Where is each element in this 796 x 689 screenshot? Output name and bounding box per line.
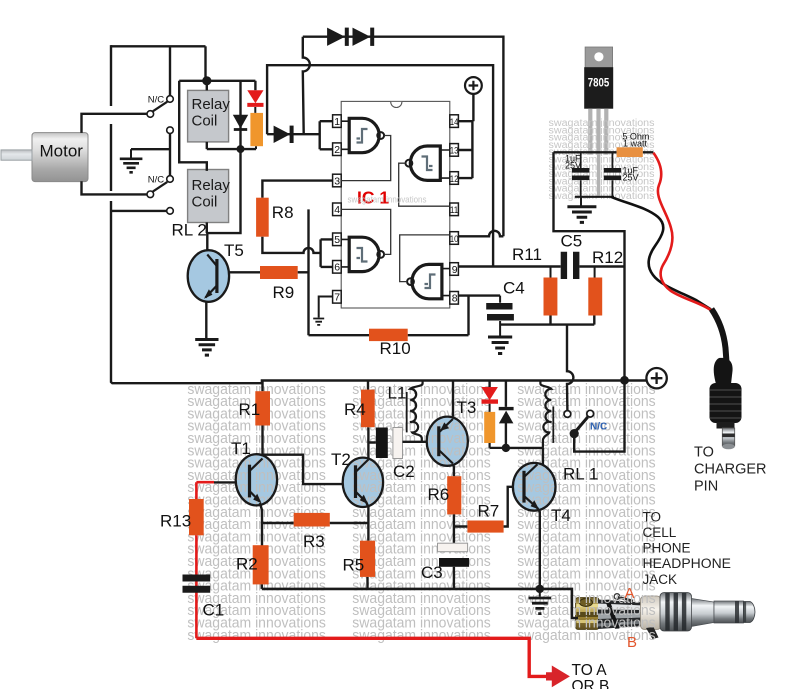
svg-text:R7: R7 bbox=[478, 502, 500, 521]
resistor R8 bbox=[256, 198, 269, 237]
svg-text:R11: R11 bbox=[512, 245, 542, 264]
ground (7805 caps) bbox=[580, 197, 582, 206]
wire S2 bottom contact lead bbox=[111, 210, 166, 212]
svg-text:3: 3 bbox=[334, 175, 340, 187]
diode D5 (freewheel, pointing up) bbox=[505, 381, 507, 448]
IC1 gate A (pins 1,2 -> 3) bbox=[349, 118, 384, 152]
headphone jack photo: chrome ribbed collar bbox=[660, 593, 692, 632]
RL1 pivot dot bbox=[570, 429, 579, 438]
wire R10 left to riser bbox=[309, 334, 370, 336]
svg-text:1: 1 bbox=[334, 116, 340, 128]
svg-text:RL 2: RL 2 bbox=[172, 221, 207, 240]
svg-text:swagatam innovationsswagatam i: swagatam innovationsswagatam innovations… bbox=[187, 627, 655, 644]
svg-text:T4: T4 bbox=[551, 506, 571, 525]
svg-text:R2: R2 bbox=[236, 555, 258, 574]
wire LED2 branch stem bbox=[488, 381, 490, 388]
transistor T2 bbox=[343, 458, 383, 507]
diode D2 (top series) bbox=[353, 28, 371, 46]
resistor R11 bbox=[550, 267, 552, 278]
svg-text:N/C: N/C bbox=[590, 422, 607, 433]
resistor R6 bbox=[447, 476, 461, 514]
wire pin3 to R8 bbox=[262, 181, 332, 198]
wire R7 to T4 base bbox=[504, 487, 513, 527]
ground (rail) bbox=[539, 589, 541, 597]
ground (pin7, small) bbox=[313, 319, 324, 325]
wire coil2 bottom to T5 collector bbox=[207, 149, 241, 250]
wire T2 emitter through R5 to rail bbox=[366, 502, 368, 589]
resistor R9 bbox=[260, 266, 298, 279]
svg-text:JACK: JACK bbox=[643, 572, 678, 587]
watermark block (near 7805) bbox=[549, 118, 655, 202]
wire pin8 to C4 bbox=[458, 294, 500, 296]
wire relay top drop bbox=[204, 46, 206, 81]
resistor R13 bbox=[189, 499, 204, 535]
wire left loop to coil2 top bbox=[179, 81, 207, 171]
svg-text:7: 7 bbox=[334, 292, 340, 304]
IC1 gate B input nubs bbox=[440, 150, 450, 178]
diode D3 (across relay, pointing down) bbox=[233, 115, 248, 129]
transistor T2 circle fill bbox=[343, 458, 383, 507]
svg-text:T5: T5 bbox=[224, 241, 244, 260]
IC1 pin 10 bbox=[450, 232, 459, 245]
wire T1 collector cross-couple to T2 base bbox=[263, 455, 343, 484]
wire relay coil1 stems bbox=[206, 81, 208, 149]
headphone jack photo: tip barrel bbox=[714, 601, 755, 623]
motor M1 body bbox=[32, 133, 88, 182]
node dot LED/diode bbox=[502, 444, 510, 452]
S2 bottom contact bbox=[167, 208, 174, 215]
wire top feedback (pin10 loop) with hop over y=65 wire bbox=[303, 37, 504, 237]
svg-text:PIN: PIN bbox=[694, 479, 718, 495]
capacitor C4 bbox=[499, 296, 501, 336]
svg-text:5: 5 bbox=[334, 234, 340, 246]
svg-text:Relay: Relay bbox=[192, 177, 231, 194]
resistor R3 bbox=[294, 513, 330, 527]
plus terminal (IC supply) bbox=[465, 77, 482, 94]
svg-text:11: 11 bbox=[450, 205, 458, 215]
wire R3 right to T2 emitter bbox=[330, 522, 369, 524]
wire node to T4 collector bbox=[506, 448, 543, 465]
switch S1 N/C contact bbox=[167, 96, 174, 103]
capacitor C5 bbox=[564, 252, 576, 279]
IC1 pin 7 bbox=[333, 291, 342, 304]
svg-text:N/C: N/C bbox=[148, 175, 165, 186]
svg-text:OR B: OR B bbox=[572, 678, 610, 689]
IC1 pin 2 bbox=[333, 143, 342, 156]
wire 7805 output row bbox=[554, 151, 654, 153]
wire T5 emitter to ground bbox=[205, 302, 207, 339]
wire ground tap bbox=[131, 148, 170, 150]
svg-text:7805: 7805 bbox=[588, 78, 610, 90]
IC1 gate D output trace to pin10 bbox=[400, 235, 450, 282]
svg-text:1 watt: 1 watt bbox=[623, 138, 648, 148]
wire C2 plates stems bbox=[368, 441, 426, 444]
resistor R1 bbox=[261, 381, 263, 455]
wire coil1 bottom to LED node bbox=[207, 148, 256, 150]
IC1 gate B (pins 12,13 -> 11, mirrored) bbox=[406, 146, 441, 180]
red wire through R13 and C1 down to red rail bbox=[195, 482, 198, 638]
charger red lead (wavy) bbox=[653, 153, 712, 311]
7805 body bbox=[584, 67, 613, 109]
LED1 red (pointing down) bbox=[247, 90, 263, 103]
relay RL1 contact riser (hop over bus) bbox=[567, 325, 573, 411]
charger plug neck bbox=[717, 422, 735, 429]
svg-text:R10: R10 bbox=[380, 339, 411, 358]
wire 7805 input frame bbox=[554, 152, 625, 380]
wire pin7 to ground bbox=[319, 297, 333, 318]
svg-text:TO: TO bbox=[694, 445, 714, 461]
IC1 gate B output trace to pin11 bbox=[399, 163, 450, 206]
IC1 gate C input nubs bbox=[341, 239, 349, 267]
wire R6 bottom / R7 node / C3 bbox=[454, 514, 468, 543]
7805 tab bbox=[585, 47, 613, 69]
node dot rail/T4 emitter bbox=[536, 585, 544, 593]
diode D1 (top series) bbox=[327, 28, 345, 46]
svg-text:6: 6 bbox=[334, 262, 340, 274]
svg-text:PHONE: PHONE bbox=[643, 541, 691, 556]
svg-text:R8: R8 bbox=[272, 203, 294, 222]
headphone jack photo: gold lug bbox=[576, 598, 600, 630]
svg-text:T3: T3 bbox=[457, 398, 477, 417]
motor M1 shaft bbox=[1, 150, 32, 160]
wire pin8 drop to R10 bbox=[408, 296, 469, 336]
svg-text:TO: TO bbox=[643, 510, 662, 525]
IC1 pin 8 bbox=[450, 292, 459, 305]
transistor T4 circle fill bbox=[513, 463, 556, 511]
RL1 contact right (N/C) bbox=[587, 410, 594, 417]
svg-text:R13: R13 bbox=[160, 512, 191, 531]
wire pin9 feedback branch (y=65) bbox=[267, 65, 493, 266]
IC1 pin 4 bbox=[333, 203, 342, 216]
svg-text:Coil: Coil bbox=[192, 113, 218, 130]
wire RL1 common to bus bbox=[574, 381, 624, 452]
charger black lead (wavy) bbox=[611, 197, 711, 310]
transistor T3 circle fill bbox=[427, 417, 468, 466]
charger plug metal tip bbox=[722, 428, 734, 446]
IC1 pin 12 bbox=[450, 172, 459, 185]
red arrow TO A OR B bbox=[546, 666, 570, 688]
svg-text:C5: C5 bbox=[561, 232, 583, 251]
IC1 gate A output trace to pin3 bbox=[341, 136, 390, 181]
IC1 gate A input nubs bbox=[341, 121, 349, 149]
switch S2 pivot contact bbox=[147, 191, 154, 198]
7805 legs bbox=[588, 109, 592, 155]
svg-text:Motor: Motor bbox=[40, 142, 84, 161]
red wire T1 base tap bbox=[196, 481, 214, 484]
svg-text:N/C: N/C bbox=[148, 95, 165, 106]
wire motor top lead bbox=[82, 114, 148, 133]
svg-text:4: 4 bbox=[334, 204, 340, 216]
svg-text:Relay: Relay bbox=[192, 96, 231, 113]
headphone jack photo: taper bbox=[692, 599, 715, 627]
switch S1 lever bbox=[153, 102, 168, 112]
switch S2 N/C contact bbox=[167, 176, 174, 183]
transistor T4 bbox=[513, 463, 556, 511]
resistor R4 bbox=[367, 381, 370, 459]
RL1 lever bbox=[575, 417, 588, 433]
svg-text:25V: 25V bbox=[565, 161, 581, 171]
inductor L1 bbox=[410, 381, 423, 442]
IC1 gate D input nubs bbox=[442, 269, 450, 296]
wire caps common node bbox=[575, 196, 614, 198]
IC1 gate D (pins 8,9 -> 10, mirrored) bbox=[407, 264, 442, 298]
wire pin9 / C5 rail bbox=[458, 265, 624, 267]
IC1 pin 11 bbox=[450, 203, 459, 216]
wire main V+ bus bbox=[262, 381, 646, 384]
capacitor C1 bbox=[183, 578, 211, 589]
IC1 body outline bbox=[341, 101, 450, 308]
node dot coil1 bottom bbox=[237, 145, 245, 153]
wire top-left horizontal V+ bbox=[111, 45, 206, 47]
wire bottom ground rail bbox=[262, 589, 578, 618]
svg-text:R12: R12 bbox=[592, 248, 623, 267]
wire S1 lower contact tie to S2 NC bbox=[169, 134, 171, 176]
svg-text:9: 9 bbox=[452, 264, 458, 276]
RL1 contact left bbox=[564, 411, 571, 418]
headphone jack photo: solder tab shaft bbox=[598, 594, 644, 629]
resistor R5 bbox=[360, 541, 375, 577]
transistor T1 circle fill bbox=[236, 454, 277, 505]
svg-text:CELL: CELL bbox=[643, 525, 677, 540]
svg-text:R5: R5 bbox=[343, 556, 365, 575]
wire pin10 output (hop over feedback riser) bbox=[458, 231, 503, 236]
svg-text:12: 12 bbox=[450, 174, 458, 184]
relay coil box 1 of RL2 bbox=[188, 90, 229, 141]
wire motor bottom lead bbox=[82, 181, 148, 194]
wire R2 to rail bbox=[261, 584, 263, 589]
node dot relay top bbox=[202, 76, 211, 85]
svg-text:T1: T1 bbox=[231, 439, 251, 458]
wire diode D4 row into pins 1,2 bbox=[267, 121, 333, 149]
wire left vertical (with crossover gaps at motor wires) bbox=[111, 45, 262, 383]
IC1 pin 13 bbox=[450, 144, 459, 157]
resistor R12 bbox=[594, 267, 596, 278]
svg-text:R9: R9 bbox=[273, 283, 295, 302]
ground (motor switches) bbox=[130, 149, 132, 157]
svg-text:A: A bbox=[625, 585, 635, 602]
svg-text:swagatam innovations: swagatam innovations bbox=[348, 195, 427, 205]
wire pin14/13/12 supply tie bbox=[458, 94, 473, 178]
wire R8 bottom to pins 5,6 (hop over riser) bbox=[262, 237, 320, 253]
charger plug strain relief (ribbed) bbox=[714, 358, 733, 384]
wire T4 emitter to rail bbox=[537, 508, 540, 589]
headphone jack photo: ivory insulator ring bbox=[641, 596, 662, 630]
IC1 pin 3 bbox=[333, 174, 342, 187]
ground (T5) bbox=[195, 340, 218, 356]
svg-text:R3: R3 bbox=[303, 532, 325, 551]
IC1 pin 1 bbox=[333, 115, 342, 128]
svg-text:R1: R1 bbox=[239, 400, 261, 419]
resistor (LED1 series, amber) bbox=[250, 113, 263, 146]
wire pins 5-6 tie bbox=[321, 239, 333, 267]
wire T5 base to R9 bbox=[229, 271, 260, 273]
svg-text:8: 8 bbox=[452, 293, 458, 305]
svg-text:13: 13 bbox=[450, 146, 458, 156]
resistor R10 bbox=[369, 329, 408, 341]
wire R9 to pin4 riser bbox=[298, 271, 309, 273]
charger plug cable bbox=[712, 309, 727, 362]
wire relay RL2 top bus bbox=[179, 81, 255, 149]
switch S2 lever bbox=[153, 182, 168, 192]
svg-text:L1: L1 bbox=[388, 384, 407, 403]
IC1 gate C (pins 5,6 -> 4) bbox=[349, 237, 384, 271]
svg-text:HEADPHONE: HEADPHONE bbox=[643, 556, 732, 571]
transistor T3 (PNP) bbox=[452, 381, 454, 417]
wire R11/R12 bottoms to C4 ground bbox=[500, 316, 594, 325]
IC1 pin 9 bbox=[450, 263, 459, 276]
capacitor C3 (white/black plates) bbox=[438, 543, 468, 552]
IC1 pin 6 bbox=[333, 261, 342, 274]
wire T1 emitter node bbox=[260, 503, 294, 547]
watermark block (lower) bbox=[187, 381, 655, 644]
ground (C4) bbox=[488, 337, 512, 354]
transistor T1 bbox=[236, 454, 277, 505]
svg-text:C3: C3 bbox=[421, 563, 443, 582]
wire pin4 riser bbox=[307, 209, 309, 335]
svg-text:10: 10 bbox=[450, 234, 458, 244]
relay coil box 2 of RL2 bbox=[188, 170, 229, 223]
transistor T5 circle fill bbox=[188, 250, 229, 302]
resistor (LED2 series, amber) bbox=[489, 404, 491, 412]
svg-text:CHARGER: CHARGER bbox=[694, 462, 767, 478]
IC1 notch bbox=[391, 102, 402, 108]
plus terminal (battery +) bbox=[646, 368, 666, 388]
svg-text:14: 14 bbox=[450, 117, 458, 127]
wire T1 base lead bbox=[214, 481, 236, 483]
relay RL1 coil bbox=[540, 381, 551, 448]
S1 lower contact bbox=[167, 127, 174, 134]
diode D4 (pointing right, to IC inputs) bbox=[274, 126, 291, 143]
LED2 red (pointing down) bbox=[481, 387, 498, 400]
svg-text:R4: R4 bbox=[344, 400, 366, 419]
transistor T5 bbox=[188, 250, 229, 302]
IC1 pin 5 bbox=[333, 233, 342, 246]
svg-text:C1: C1 bbox=[203, 601, 225, 620]
svg-text:RL 1: RL 1 bbox=[563, 465, 598, 484]
svg-text:C2: C2 bbox=[393, 462, 415, 481]
svg-text:R6: R6 bbox=[428, 485, 450, 504]
IC1 gate C output trace to pin4 bbox=[341, 209, 390, 254]
red wire bottom rail to arrow bbox=[196, 638, 553, 676]
svg-text:Coil: Coil bbox=[192, 194, 218, 211]
resistor R7 bbox=[467, 521, 503, 533]
charger plug barrel (ribbed) bbox=[710, 383, 742, 423]
resistor R2 bbox=[253, 545, 269, 584]
wire NC1 contact drop bbox=[169, 46, 171, 95]
IC1 pin 14 bbox=[450, 115, 459, 128]
svg-text:25V: 25V bbox=[623, 173, 639, 183]
svg-text:2: 2 bbox=[334, 144, 340, 156]
node dot bus/+riser bbox=[620, 376, 629, 385]
resistor 5 Ohm 1 watt bbox=[617, 147, 643, 157]
svg-text:C4: C4 bbox=[503, 279, 525, 298]
svg-text:T2: T2 bbox=[331, 450, 351, 469]
capacitor 1uF 25V (left) bbox=[580, 152, 582, 197]
switch S1 pivot contact bbox=[147, 111, 154, 118]
svg-text:TO A: TO A bbox=[572, 662, 608, 679]
svg-text:B: B bbox=[627, 634, 637, 651]
capacitor C2 (black/white plates) bbox=[376, 428, 388, 459]
capacitor 1uF 25V (right) bbox=[611, 152, 613, 197]
wire T3 collector to R6 bbox=[453, 464, 454, 476]
